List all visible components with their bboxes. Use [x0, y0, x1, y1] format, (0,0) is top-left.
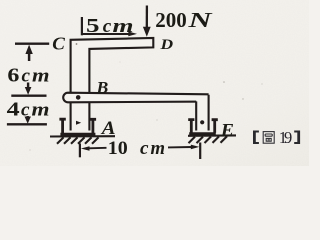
svg-text:6: 6 [7, 65, 19, 87]
dim 4cm arrow (down) [27, 116, 29, 119]
force 200N arrowhead [143, 27, 151, 37]
support E hatching [189, 136, 228, 143]
scan specks [29, 43, 262, 150]
hanzi tu (figure) glyph [263, 132, 274, 144]
dim 10cm right tick [199, 143, 201, 160]
svg-text:200: 200 [155, 8, 187, 32]
svg-text:A: A [101, 118, 116, 139]
svg-text:m: m [151, 138, 166, 159]
paper background [0, 0, 309, 166]
dim left tick C level [15, 43, 49, 45]
dim 10cm left arrowhead [81, 146, 90, 151]
svg-text:D: D [159, 37, 173, 53]
svg-text:E: E [220, 120, 234, 140]
dim 5cm tick [81, 17, 83, 35]
svg-text:C: C [52, 33, 65, 53]
svg-text:c: c [22, 66, 31, 87]
swing bar B-E outline [63, 93, 208, 103]
svg-text:c: c [21, 100, 30, 121]
dim 10cm right arrowhead [191, 145, 200, 150]
dim 5cm arrowhead [128, 32, 137, 37]
dim 10cm left tick [79, 143, 81, 157]
pin E [200, 120, 204, 124]
support A ground line [50, 135, 115, 137]
lenticular bracket left [253, 131, 259, 145]
dim left tick A level [7, 123, 47, 125]
svg-text:N: N [187, 8, 213, 32]
swing bar B-E fill [63, 93, 208, 103]
svg-text:m: m [32, 66, 50, 87]
svg-text:c: c [140, 138, 149, 159]
support A hatching [57, 137, 99, 143]
dim 6cm lower arrow (down) [27, 83, 29, 90]
member CDA: L-shaped bent bar outline [71, 38, 154, 131]
svg-text:19: 19 [279, 128, 292, 147]
dim 5cm line [82, 33, 130, 35]
text 200N [7, 8, 234, 159]
svg-text:10: 10 [108, 138, 128, 159]
member CDA: L-shaped bent bar fill [71, 38, 154, 131]
dim 10cm right line [168, 146, 192, 148]
column to E outline [196, 95, 208, 131]
force 200N arrow line [146, 6, 148, 30]
svg-text:5: 5 [86, 15, 100, 37]
caption [圖 19] [253, 128, 300, 147]
support E bracket [188, 120, 218, 134]
support A bracket [59, 119, 96, 134]
pin B [76, 95, 81, 100]
column to E fill [196, 96, 208, 131]
svg-text:c: c [103, 16, 112, 37]
dim 6cm upper arrow (up) [25, 45, 32, 54]
svg-text:4: 4 [7, 99, 20, 121]
svg-text:m: m [113, 16, 134, 37]
dim left tick B level [11, 95, 46, 97]
svg-text:B: B [95, 78, 108, 97]
dim 10cm left line [89, 147, 107, 150]
lenticular bracket right [294, 131, 300, 145]
svg-text:m: m [32, 100, 50, 121]
support E ground line [188, 134, 236, 137]
pin A (triangle marker) [76, 121, 81, 125]
